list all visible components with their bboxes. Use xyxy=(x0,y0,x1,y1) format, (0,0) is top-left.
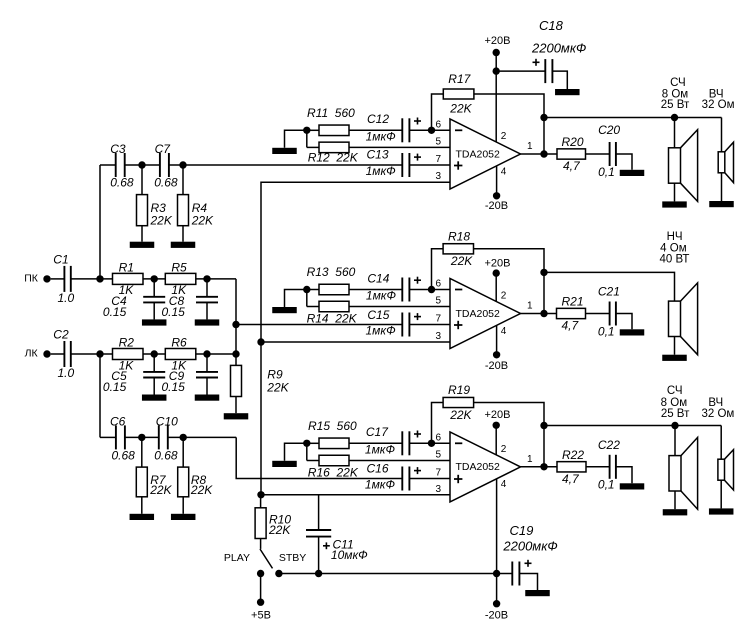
wire C21 to ground xyxy=(616,314,632,330)
svg-text:-20В: -20В xyxy=(485,200,508,212)
wire amp3 pin3 row xyxy=(261,494,450,496)
svg-text:5: 5 xyxy=(435,296,441,307)
svg-text:C16: C16 xyxy=(367,462,389,476)
svg-text:C14: C14 xyxy=(367,271,389,285)
wire riser corner to C3 xyxy=(100,164,116,166)
resistor R8 22K xyxy=(182,437,184,467)
capacitor C6 0.68 xyxy=(115,425,117,449)
wire C13 to pin7 xyxy=(409,164,450,166)
resistor R16 22K xyxy=(319,455,349,466)
node J junction C10-R8 xyxy=(180,434,187,441)
node speaker feed amp2 xyxy=(540,269,547,276)
svg-text:-20В: -20В xyxy=(485,360,508,372)
ground below C4 xyxy=(142,319,167,325)
svg-text:0,1: 0,1 xyxy=(598,478,615,492)
svg-text:C2: C2 xyxy=(53,327,69,341)
svg-text:25 Вт: 25 Вт xyxy=(661,99,690,111)
svg-text:22K: 22K xyxy=(191,214,214,228)
resistor R10 22K xyxy=(260,495,262,508)
resistor R3 22K xyxy=(141,165,143,195)
svg-text:25 Вт: 25 Вт xyxy=(661,408,690,420)
terminal +20V amp1 xyxy=(493,49,500,56)
svg-text:6: 6 xyxy=(435,432,441,443)
wire pin4 amp1 to -20V xyxy=(496,166,498,196)
node pin4 amp3 C19 tap xyxy=(493,570,500,577)
U3 non-inverting plus sign xyxy=(454,478,462,480)
resistor R22 4,7 xyxy=(557,462,586,472)
node K riser to amp2 pin7 feed xyxy=(232,321,239,328)
wire R18 right to output riser xyxy=(474,249,545,314)
resistor R17 22K feedback xyxy=(443,89,474,99)
svg-text:1мкФ: 1мкФ xyxy=(366,289,397,303)
wire STBY to C11 to amp pin4 node xyxy=(279,573,497,575)
capacitor C16 1uF xyxy=(401,467,403,491)
svg-text:C6: C6 xyxy=(110,414,126,428)
resistor R19 22K feedback xyxy=(443,397,474,407)
capacitor C4 0.15 xyxy=(153,279,155,297)
svg-text:+20В: +20В xyxy=(485,409,511,421)
capacitor C17 1uF xyxy=(401,431,403,455)
ground below R8 xyxy=(182,497,184,514)
svg-text:R5: R5 xyxy=(171,260,187,274)
node input network N1 amp1 xyxy=(303,127,310,134)
capacitor C7 0.68 xyxy=(159,153,161,177)
wire speaker line amp1 xyxy=(544,117,722,119)
ground C21 xyxy=(620,329,645,335)
capacitor C20 0,1 xyxy=(609,142,611,166)
ground below R4 xyxy=(182,226,184,242)
svg-text:22K: 22K xyxy=(449,102,472,116)
wire PLAY to +5V xyxy=(260,574,262,603)
svg-text:4: 4 xyxy=(501,166,507,177)
svg-text:4,7: 4,7 xyxy=(562,319,580,333)
terminal +20V amp3 xyxy=(493,422,500,429)
resistor R18 22K feedback xyxy=(443,244,473,254)
wire R20 to C20 xyxy=(586,153,610,155)
svg-text:0.15: 0.15 xyxy=(162,380,186,394)
riser node D down to C6 xyxy=(99,354,101,437)
wire +20V to pin2 amp1 xyxy=(495,53,497,142)
svg-text:0.15: 0.15 xyxy=(103,380,127,394)
svg-text:C18: C18 xyxy=(539,18,564,33)
wire down to tweeter BA5 top xyxy=(720,426,722,460)
ground C19 xyxy=(525,590,550,596)
node output amp2 xyxy=(540,310,547,317)
wire R15 to C17 xyxy=(307,442,319,444)
svg-text:22K: 22K xyxy=(150,214,173,228)
wire pin4 amp2 to -20V xyxy=(496,325,498,354)
svg-text:1мкФ: 1мкФ xyxy=(366,130,397,144)
svg-text:C12: C12 xyxy=(367,112,389,126)
capacitor C14 1uF xyxy=(401,278,403,302)
riser node A up to C3 xyxy=(99,165,101,279)
svg-text:1: 1 xyxy=(527,301,533,312)
svg-text:PLAY: PLAY xyxy=(224,552,250,564)
svg-text:0.68: 0.68 xyxy=(112,448,136,462)
svg-text:R18: R18 xyxy=(448,230,470,244)
node L riser LK row xyxy=(232,350,239,357)
U2 inverting input minus sign xyxy=(455,289,462,291)
wire R17 left to pin6 node xyxy=(432,94,444,130)
capacitor C3 0.68 xyxy=(115,153,117,177)
node I junction C6-C10-R7 xyxy=(138,434,145,441)
svg-text:НЧ: НЧ xyxy=(667,231,683,243)
svg-text:R9: R9 xyxy=(267,368,283,382)
wire to C18 xyxy=(496,70,545,72)
svg-text:7: 7 xyxy=(435,154,441,165)
node E junction R2-R6-C5 xyxy=(151,350,158,357)
wire pin4 amp3 down to C19 node xyxy=(496,479,498,574)
node G junction C3-C7-R3 xyxy=(138,161,145,168)
svg-text:R22: R22 xyxy=(562,448,584,462)
wire R13 to C14 xyxy=(307,289,319,291)
wire C16 to pin7 xyxy=(409,478,450,480)
wire R19 left to pin6 node xyxy=(432,403,444,444)
wire R5 to node C xyxy=(196,278,236,280)
svg-text:4: 4 xyxy=(501,326,507,337)
capacitor C19 2200uF electrolytic xyxy=(497,573,513,575)
svg-text:R13 560: R13 560 xyxy=(307,265,356,279)
wire speaker line amp3 xyxy=(544,425,721,427)
wire riser to amp2 pin3 xyxy=(261,341,450,343)
svg-text:R11 560: R11 560 xyxy=(307,106,355,120)
wire N1 down to lower resistor amp1 xyxy=(306,130,308,147)
switch PLAY/STBY blade xyxy=(260,539,262,549)
tweeter BA5 VCH 32 Ohm xyxy=(718,459,725,480)
ground below C9 xyxy=(195,395,220,401)
capacitor C9 0.15 xyxy=(206,354,208,372)
wire output amp3 xyxy=(521,466,558,468)
resistor R15 560 xyxy=(319,438,349,449)
svg-text:3: 3 xyxy=(435,484,441,495)
wire R6 to summing riser xyxy=(196,353,236,355)
svg-text:5: 5 xyxy=(435,136,441,147)
node speaker feed amp1 xyxy=(540,114,547,121)
wire R18 left to pin6 node xyxy=(432,249,444,290)
U2 non-inverting plus sign xyxy=(454,324,462,326)
wire C3 to C7 xyxy=(125,164,160,166)
svg-text:R17: R17 xyxy=(448,72,471,86)
node N riser to amp3 pin3 and R10 xyxy=(257,491,264,498)
svg-text:R2: R2 xyxy=(119,335,135,349)
svg-text:0.68: 0.68 xyxy=(154,176,178,190)
svg-text:СЧ: СЧ xyxy=(667,385,683,397)
capacitor C11 10uF electrolytic xyxy=(318,495,320,530)
node D junction xyxy=(96,350,103,357)
svg-text:32 Ом: 32 Ом xyxy=(701,408,734,420)
svg-text:R16 22K: R16 22K xyxy=(308,466,359,480)
svg-text:0.68: 0.68 xyxy=(154,448,178,462)
capacitor C22 0,1 xyxy=(609,455,611,479)
svg-text:0,1: 0,1 xyxy=(598,325,615,339)
op-amp U2 TDA2052 triangle xyxy=(450,279,521,349)
ground input network amp2 xyxy=(272,307,297,313)
svg-text:СЧ: СЧ xyxy=(670,77,686,89)
capacitor C12 1uF xyxy=(401,118,403,142)
svg-text:0,1: 0,1 xyxy=(598,165,615,179)
capacitor C18 2200uF electrolytic xyxy=(544,59,546,83)
node C junction R5-C8 xyxy=(203,275,210,282)
svg-text:10мкФ: 10мкФ xyxy=(331,548,368,562)
terminal -20V amp2 xyxy=(493,351,500,358)
resistor R9 22K xyxy=(231,365,242,396)
node speaker SCH tap xyxy=(671,114,678,121)
ground input network amp1 xyxy=(272,148,297,154)
capacitor C5 0.15 xyxy=(153,354,155,372)
capacitor C15 1uF xyxy=(401,313,403,337)
svg-text:C7: C7 xyxy=(155,142,172,156)
capacitor C1 1.0 xyxy=(63,266,65,292)
capacitor C21 0,1 xyxy=(609,302,611,326)
svg-text:R20: R20 xyxy=(562,135,584,149)
svg-text:TDA2052: TDA2052 xyxy=(456,148,501,160)
wire R11 to C12 xyxy=(307,129,319,131)
ground C18 xyxy=(555,89,580,95)
node speaker feed amp3 xyxy=(540,422,547,429)
node input network N1 amp3 xyxy=(303,440,310,447)
ground below R9 xyxy=(235,397,237,414)
svg-text:3: 3 xyxy=(435,331,441,342)
svg-text:1мкФ: 1мкФ xyxy=(365,477,396,491)
svg-text:C17: C17 xyxy=(366,425,389,439)
node N2 amp3 pin6 xyxy=(428,440,435,447)
wire C18 to ground xyxy=(552,71,567,89)
wire C2 to node D xyxy=(71,353,113,355)
svg-text:R14 22K: R14 22K xyxy=(307,312,358,326)
resistor R4 22K xyxy=(182,165,184,195)
resistor R12 22K xyxy=(319,142,349,153)
svg-text:1: 1 xyxy=(527,141,533,152)
svg-text:+20В: +20В xyxy=(485,257,511,269)
wire R21 to C21 xyxy=(586,313,610,315)
node B junction R1-R5-C4 xyxy=(151,275,158,282)
node A junction xyxy=(96,275,103,282)
svg-text:C15: C15 xyxy=(367,308,389,322)
node C11 bottom xyxy=(315,570,322,577)
wire N1 to ground amp3 xyxy=(285,443,307,461)
node speaker SCH tap bottom xyxy=(671,422,678,429)
wire C1 to node A xyxy=(71,278,113,280)
svg-text:STBY: STBY xyxy=(279,552,306,564)
wire node to -20V amp3 xyxy=(496,574,498,604)
ground below R7 xyxy=(141,497,143,514)
wire R1 to node B xyxy=(143,278,165,280)
wire stand-by riser xyxy=(261,182,450,495)
svg-text:C10: C10 xyxy=(156,414,178,428)
op-amp U3 TDA2052 triangle xyxy=(450,432,521,502)
switch contact PLAY xyxy=(257,570,264,577)
svg-text:7: 7 xyxy=(435,314,441,325)
svg-text:22K: 22K xyxy=(450,254,473,268)
node H junction C7-R4 xyxy=(179,161,186,168)
wire down to speaker SCH top xyxy=(674,118,676,148)
ground below R3 xyxy=(141,226,143,242)
wire R12 to pin5 xyxy=(349,146,450,148)
svg-text:2200мкФ: 2200мкФ xyxy=(502,539,557,554)
ground below C5 xyxy=(142,395,167,401)
terminal +5V xyxy=(257,599,264,606)
wire C14 to N2 xyxy=(409,289,450,291)
wire R16 to pin5 xyxy=(349,460,450,462)
ground C20 xyxy=(620,170,645,176)
resistor R21 4,7 xyxy=(557,308,586,318)
svg-text:C1: C1 xyxy=(53,252,68,266)
svg-text:C22: C22 xyxy=(598,438,620,452)
svg-text:4,7: 4,7 xyxy=(563,159,581,173)
svg-text:2: 2 xyxy=(501,131,507,142)
svg-text:0.68: 0.68 xyxy=(110,176,134,190)
wire PK to C1 xyxy=(51,278,65,280)
resistor R20 4,7 xyxy=(557,149,586,159)
node N2 amp2 pin6 xyxy=(428,286,435,293)
resistor R7 22K xyxy=(141,437,143,467)
svg-text:R1: R1 xyxy=(119,260,134,274)
capacitor C13 1uF xyxy=(401,153,403,177)
svg-text:C21: C21 xyxy=(598,285,620,299)
svg-text:0.15: 0.15 xyxy=(103,305,127,319)
ground C22 xyxy=(620,483,645,489)
resistor R13 560 xyxy=(319,284,349,295)
svg-text:22K: 22K xyxy=(266,381,289,395)
svg-text:R15 560: R15 560 xyxy=(308,419,357,433)
wire R2 to node E xyxy=(143,353,165,355)
svg-text:5: 5 xyxy=(435,450,441,461)
speaker BA1 SCH 8 Ohm 25 W xyxy=(669,148,681,183)
wire +20V to pin2 amp2 xyxy=(495,273,497,301)
wire C10 output to corner xyxy=(168,436,236,438)
svg-text:TDA2052: TDA2052 xyxy=(456,461,501,473)
svg-text:40 ВТ: 40 ВТ xyxy=(660,253,690,265)
wire C17 to N2 xyxy=(409,442,450,444)
wire C7 output to C13 feed xyxy=(169,164,402,166)
svg-text:6: 6 xyxy=(435,119,441,130)
terminal -20V amp1 xyxy=(493,192,500,199)
svg-text:R19: R19 xyxy=(448,383,470,397)
terminal +20V amp2 xyxy=(493,269,500,276)
resistor R2 1K xyxy=(113,349,144,360)
terminal -20V amp3 xyxy=(493,600,500,607)
svg-text:+5В: +5В xyxy=(251,610,271,622)
svg-text:R12 22K: R12 22K xyxy=(308,151,359,165)
svg-text:0.15: 0.15 xyxy=(162,305,186,319)
svg-text:C13: C13 xyxy=(367,148,389,162)
node output amp3 xyxy=(540,463,547,470)
svg-text:ВЧ: ВЧ xyxy=(708,397,723,409)
node output amp1 xyxy=(540,150,547,157)
resistor R5 1K xyxy=(165,273,196,284)
svg-text:C19: C19 xyxy=(510,523,534,538)
wire R17 right to output riser xyxy=(474,94,544,154)
svg-text:4: 4 xyxy=(501,479,507,490)
wire speaker line amp2 xyxy=(544,272,675,301)
node M riser to amp2 pin3 xyxy=(257,338,264,345)
wire LK to C2 xyxy=(51,353,65,355)
speaker BA3 NCH 4 Ohm 40 W xyxy=(669,301,681,336)
wire summing riser xyxy=(235,279,237,366)
svg-text:22K: 22K xyxy=(449,408,472,422)
op-amp U1 TDA2052 triangle xyxy=(450,119,521,189)
wire C12 to N2 xyxy=(409,129,450,131)
wire output amp2 xyxy=(521,313,558,315)
resistor R6 1K xyxy=(165,349,196,360)
svg-text:-20В: -20В xyxy=(485,610,508,622)
wire corner down to amp3 pin7 row xyxy=(236,437,402,478)
svg-text:2200мкФ: 2200мкФ xyxy=(531,40,586,55)
wire N1 to ground amp2 xyxy=(285,290,307,308)
ground input network amp3 xyxy=(272,461,297,467)
switch contact STBY xyxy=(275,570,282,577)
svg-text:6: 6 xyxy=(435,279,441,290)
ground below C8 xyxy=(195,319,220,325)
wire down to tweeter BA2 top xyxy=(721,118,723,152)
svg-text:7: 7 xyxy=(435,468,441,479)
speaker BA4 SCH 8 Ohm 25 W xyxy=(669,456,681,491)
U1 non-inverting plus sign xyxy=(454,165,462,167)
wire N1 down to lower resistor amp3 xyxy=(306,443,308,460)
capacitor C8 0.15 xyxy=(206,279,208,297)
wire C6 to C10 xyxy=(125,436,159,438)
svg-text:1мкФ: 1мкФ xyxy=(365,443,396,457)
wire N1 to ground amp1 xyxy=(285,130,307,148)
resistor R11 560 xyxy=(319,125,349,136)
wire down to speaker top bottom SCH xyxy=(674,426,676,456)
svg-text:TDA2052: TDA2052 xyxy=(456,308,501,320)
node input network N1 amp2 xyxy=(303,286,310,293)
svg-text:R21: R21 xyxy=(562,295,584,309)
capacitor C2 1.0 xyxy=(63,341,65,367)
node C18 tap xyxy=(493,67,500,74)
node N2 amp1 pin6 xyxy=(428,127,435,134)
svg-text:22K: 22K xyxy=(190,483,213,497)
resistor R1 1K xyxy=(113,273,144,284)
svg-text:1.0: 1.0 xyxy=(58,291,75,305)
node F junction R6-C9 xyxy=(203,350,210,357)
tweeter BA2 VCH 32 Ohm xyxy=(718,152,725,173)
svg-text:1: 1 xyxy=(527,454,533,465)
svg-text:+20В: +20В xyxy=(485,35,511,47)
wire R19 right to output riser xyxy=(474,403,544,467)
svg-text:4,7: 4,7 xyxy=(562,472,580,486)
U1 inverting input minus sign xyxy=(455,129,462,131)
svg-text:22K: 22K xyxy=(149,483,172,497)
svg-text:1мкФ: 1мкФ xyxy=(366,164,397,178)
svg-text:ЛК: ЛК xyxy=(25,348,39,360)
svg-text:C20: C20 xyxy=(598,123,620,137)
svg-text:8 Ом: 8 Ом xyxy=(661,397,688,409)
svg-text:R6: R6 xyxy=(171,335,187,349)
svg-text:2: 2 xyxy=(501,444,507,455)
wire pin2 amp3 xyxy=(495,425,497,455)
svg-text:1.0: 1.0 xyxy=(58,366,75,380)
wire riser to C15 feed xyxy=(236,324,402,326)
U3 inverting input minus sign xyxy=(455,442,462,444)
wire R22 to C22 xyxy=(586,466,610,468)
capacitor C10 0.68 xyxy=(158,425,160,449)
wire C20 to ground xyxy=(616,154,632,170)
svg-text:ПК: ПК xyxy=(24,272,39,284)
svg-text:1мкФ: 1мкФ xyxy=(366,323,397,337)
svg-text:2: 2 xyxy=(501,291,507,302)
wire C22 to ground xyxy=(616,467,632,484)
wire output amp1 xyxy=(521,153,558,155)
svg-text:3: 3 xyxy=(435,171,441,182)
wire C15 to pin7 xyxy=(409,324,450,326)
svg-text:32 Ом: 32 Ом xyxy=(702,99,735,111)
svg-text:22K: 22K xyxy=(268,523,291,537)
wire riser corner to C6 xyxy=(100,436,116,438)
svg-text:C3: C3 xyxy=(110,142,126,156)
wire R14 to pin5 xyxy=(349,306,450,308)
